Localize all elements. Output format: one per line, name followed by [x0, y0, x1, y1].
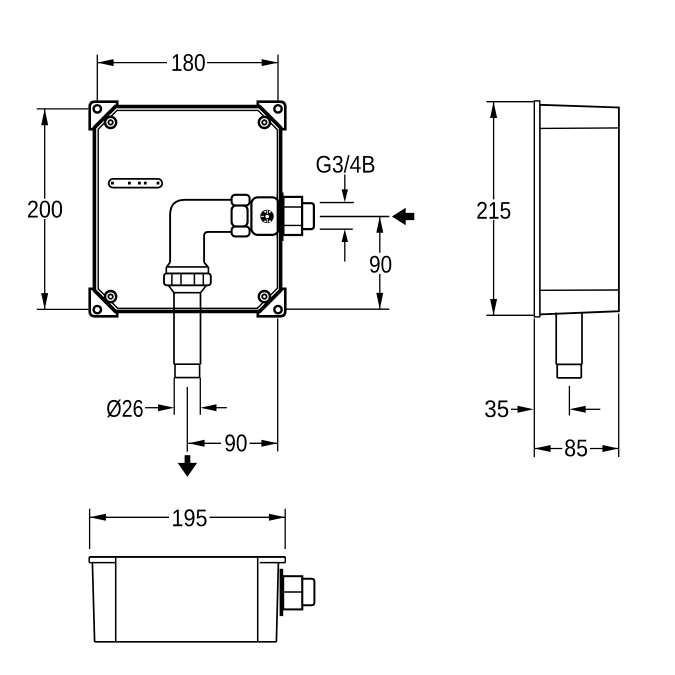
valve screw	[260, 210, 273, 223]
elbow collar	[166, 267, 208, 273]
union nut inlet	[232, 195, 250, 237]
mounting tab top-left	[90, 102, 118, 130]
screw boss bottom-left	[105, 291, 116, 302]
inlet tip outside	[302, 203, 314, 229]
pipe edge extension lines	[174, 378, 200, 415]
wall plate side	[534, 101, 540, 317]
G3/4B pointer up	[342, 229, 348, 242]
supply pipe stub lines	[320, 203, 390, 230]
bottom view washer strip	[280, 569, 284, 616]
side body outline	[540, 105, 619, 315]
tab hole bottom-left	[94, 306, 101, 313]
screw boss top-right	[259, 117, 270, 128]
dimension 85	[534, 314, 618, 459]
tab hole bottom-right	[274, 306, 281, 313]
chamfer edges over bosses	[94, 107, 280, 312]
flow arrow inlet	[392, 208, 414, 226]
bottom view inlet tip	[302, 579, 314, 606]
flow arrow outlet	[178, 455, 197, 477]
screw boss top-left	[105, 117, 116, 128]
bottom view inner walls	[116, 557, 258, 642]
label slot with dots	[109, 179, 163, 188]
inlet flange nut outside	[283, 197, 302, 235]
screw boss bottom-right	[259, 291, 270, 302]
dimension 180	[97, 52, 278, 100]
label G3/4B	[317, 155, 375, 173]
elbow pipe	[167, 200, 232, 267]
side outlet pipe	[556, 312, 582, 378]
dimension 90 horizontal	[187, 319, 277, 453]
bottom view rim	[89, 557, 285, 563]
side rim lines	[540, 128, 619, 290]
dimension 215	[475, 102, 534, 316]
mounting tab bottom-right	[258, 289, 286, 317]
dimension 90 vertical	[286, 217, 393, 310]
dimension 35	[485, 386, 600, 417]
mounting tab top-right	[258, 102, 286, 130]
dimension diameter 26	[107, 400, 227, 418]
bottom view inlet nut	[283, 576, 302, 609]
tab hole top-left	[94, 105, 101, 112]
outlet pipe front	[174, 293, 201, 378]
dimension 200	[25, 109, 88, 310]
box wall over valve	[276, 194, 278, 239]
dimension 195	[90, 506, 286, 549]
wall washer strip	[279, 192, 283, 241]
solenoid valve body	[251, 197, 278, 235]
bottom view body	[92, 563, 278, 642]
mounting tab bottom-left	[90, 289, 118, 317]
tab hole top-right	[274, 105, 281, 112]
pipe shoulder	[168, 285, 206, 292]
union nut bottom	[164, 273, 211, 285]
G3/4B pointer down	[344, 175, 346, 191]
boss holes	[108, 120, 112, 124]
box outline front (chamfered corners)	[94, 107, 280, 312]
box inner wall line front	[98, 110, 277, 308]
